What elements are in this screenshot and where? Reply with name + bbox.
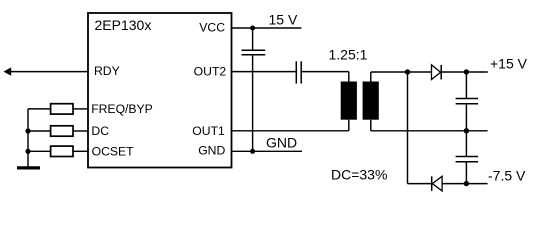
svg-text:DC: DC [91, 124, 109, 138]
resistor R3 : OCSET [51, 146, 73, 156]
node : -7.5 junction [464, 181, 469, 186]
diode D1 : +15 V rectifier [432, 65, 441, 80]
wire : OUT2 to coupling cap [232, 71, 296, 73]
wire : DC stub right [73, 130, 88, 132]
svg-text:OCSET: OCSET [92, 144, 135, 158]
svg-text:2EP130x: 2EP130x [95, 17, 152, 33]
wire : FREQ/BYP stub right [73, 108, 88, 110]
resistor R1 : FREQ/BYP [51, 104, 73, 114]
wire : bottom rail [408, 183, 432, 185]
capacitor C1 : VCC decoupling top lead [252, 28, 254, 50]
wire : C3 bottom lead [465, 104, 467, 130]
transformer T1 : primary winding bar [341, 82, 357, 120]
wire : D2 anode to -7.5 V [442, 183, 488, 185]
capacitor C2 : series coupling plates [295, 61, 297, 83]
wire : RDY output line [9, 71, 88, 73]
wire : C1 bottom lead down to GND rail [252, 56, 254, 152]
wire : coupling cap to transformer primary [302, 71, 349, 73]
wire : OCSET stub right [73, 150, 88, 152]
diode D2 : -7.5 V rectifier (pointing left) [431, 176, 433, 191]
node : bus-OCSET junction [25, 149, 30, 154]
svg-text:-7.5 V: -7.5 V [488, 168, 526, 184]
capacitor C4 : plates [456, 156, 479, 158]
wire : GND rail from pin [232, 150, 303, 152]
svg-text:RDY: RDY [94, 64, 120, 78]
node RDY arrowhead [4, 67, 12, 75]
svg-text:DC=33%: DC=33% [331, 167, 387, 183]
wire : top rail to diode D1 [371, 71, 432, 73]
wire : DC stub left [28, 130, 50, 132]
wire : FREQ/BYP stub left [28, 108, 50, 110]
wire : D1 cathode to +15 V [441, 71, 488, 73]
resistor R2 : DC [51, 126, 73, 136]
node : +15 junction [464, 69, 469, 74]
svg-text:15 V: 15 V [269, 12, 298, 28]
node : bus-DC junction [25, 128, 30, 133]
wire : secondary bottom to common rail [370, 120, 372, 131]
node : common mid junction [464, 128, 469, 133]
capacitor C3 : plates [456, 98, 479, 100]
wire : VCC rail to 15 V [232, 27, 302, 29]
ground : bar [17, 166, 40, 169]
svg-text:OUT1: OUT1 [192, 124, 225, 138]
svg-text:OUT2: OUT2 [194, 64, 227, 78]
wire : C4 bottom lead [465, 162, 467, 183]
capacitor C3 : +15 V filter top lead [465, 72, 467, 98]
svg-text:GND: GND [198, 144, 225, 158]
svg-text:1.25:1: 1.25:1 [329, 47, 368, 63]
svg-text:FREQ/BYP: FREQ/BYP [91, 102, 153, 116]
wire : OCSET stub left [28, 150, 50, 152]
svg-text:GND: GND [266, 134, 297, 150]
node : GND junction [250, 149, 255, 154]
wire : left bus vertical [27, 109, 29, 168]
capacitor C1 : plates [242, 49, 266, 51]
node : VCC junction [250, 26, 255, 31]
wire : left vertical rail (secondary top to bottom diode) [407, 72, 409, 184]
capacitor C4 : -7.5 V filter top lead [465, 131, 467, 156]
node : top-left junction [405, 69, 410, 74]
wire : secondary top lead [370, 72, 372, 82]
svg-text:VCC: VCC [199, 21, 225, 35]
wire : primary bottom to OUT1 [348, 120, 350, 131]
svg-text:+15 V: +15 V [490, 56, 528, 72]
transformer T1 : secondary winding bar [363, 82, 379, 120]
op-amp U1 : IC body 2EP130x [88, 13, 232, 168]
